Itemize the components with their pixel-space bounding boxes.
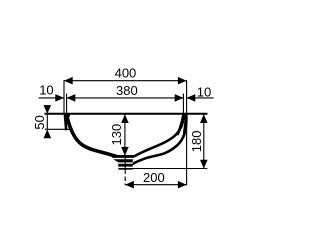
svg-text:180: 180 [189, 130, 204, 152]
svg-text:380: 380 [116, 83, 138, 98]
svg-text:10: 10 [197, 84, 211, 99]
svg-text:400: 400 [115, 65, 137, 80]
svg-text:10: 10 [39, 82, 53, 97]
svg-text:200: 200 [143, 170, 165, 185]
svg-text:50: 50 [32, 115, 47, 129]
svg-text:130: 130 [109, 124, 124, 146]
